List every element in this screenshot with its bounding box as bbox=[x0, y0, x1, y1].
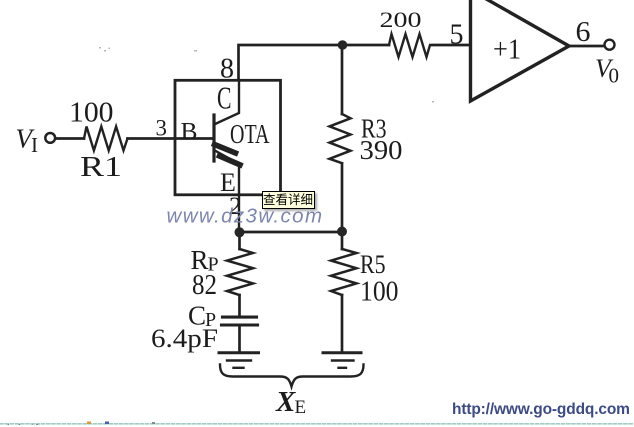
svg-text:I: I bbox=[31, 133, 38, 157]
svg-text:R1: R1 bbox=[80, 152, 122, 183]
svg-text:E: E bbox=[295, 397, 307, 418]
svg-text:82: 82 bbox=[192, 269, 217, 301]
svg-text:100: 100 bbox=[69, 98, 114, 129]
svg-text:6.4pF: 6.4pF bbox=[151, 323, 218, 353]
svg-text:C: C bbox=[217, 81, 232, 116]
svg-text:B: B bbox=[181, 117, 198, 146]
svg-text:3: 3 bbox=[156, 116, 168, 141]
svg-text:6: 6 bbox=[576, 17, 591, 48]
svg-text:0: 0 bbox=[609, 64, 620, 88]
svg-text:+1: +1 bbox=[493, 35, 521, 66]
svg-text:390: 390 bbox=[360, 135, 403, 165]
svg-text:5: 5 bbox=[450, 20, 464, 51]
svg-text:100: 100 bbox=[360, 276, 399, 308]
svg-text:OTA: OTA bbox=[230, 118, 270, 149]
svg-text:8: 8 bbox=[220, 54, 234, 85]
svg-text:X: X bbox=[275, 386, 296, 418]
svg-text:200: 200 bbox=[380, 7, 422, 32]
